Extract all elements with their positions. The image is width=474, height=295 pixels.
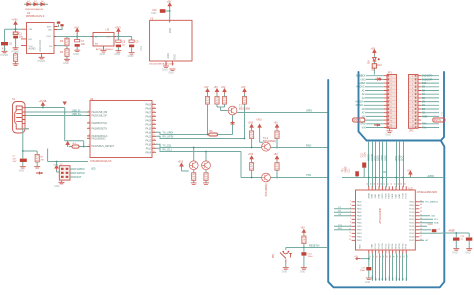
svg-text:11: 11	[390, 113, 392, 115]
wire SWCLK	[70, 172, 76, 174]
svg-text:+3V3: +3V3	[248, 121, 254, 124]
svg-text:EN: EN	[29, 39, 32, 41]
svg-text:18: 18	[383, 256, 385, 258]
svg-text:15: 15	[153, 127, 155, 129]
svg-text:OUT: OUT	[47, 36, 52, 38]
junction 3V3	[117, 36, 119, 38]
junction 5V	[76, 36, 78, 38]
wire USB data D-	[26, 111, 88, 113]
junction AVDD a	[368, 177, 370, 179]
wire C14 gnd	[303, 256, 305, 268]
svg-text:5: 5	[412, 91, 413, 93]
JP1 pin marks	[390, 76, 392, 129]
svg-text:15: 15	[390, 127, 392, 129]
diode D5	[27, 2, 30, 5]
wire +5V rail	[56, 33, 132, 37]
svg-text:PB1: PB1	[273, 253, 275, 258]
svg-text:GND: GND	[162, 69, 168, 72]
svg-text:+5V: +5V	[274, 153, 279, 156]
U3 pin stubs	[91, 37, 116, 49]
svg-text:PD07: PD07	[409, 240, 414, 242]
svg-text:53: 53	[398, 183, 400, 185]
wire RX pullup	[156, 105, 245, 139]
svg-text:PA23: PA23	[146, 139, 152, 142]
svg-text:VIN: VIN	[362, 127, 366, 129]
svg-text:GND: GND	[54, 185, 60, 188]
junction vdd bottom	[368, 258, 370, 260]
T1 gate wire	[217, 107, 228, 111]
svg-text:PA11: PA11	[146, 147, 152, 150]
junction AVDD e	[402, 177, 404, 179]
svg-text:100n: 100n	[360, 270, 366, 272]
svg-text:PF01: PF01	[406, 243, 408, 249]
svg-text:BSS138WQ: BSS138WQ	[265, 183, 268, 196]
svg-text:PA14: PA14	[146, 123, 152, 126]
ground below C1	[13, 48, 19, 50]
svg-text:VDD: VDD	[396, 194, 398, 199]
U2 pin stubs	[21, 27, 57, 58]
bottom left supply cluster	[360, 254, 369, 267]
IC5 right pin numbers	[420, 200, 422, 241]
svg-text:PB05: PB05	[357, 240, 362, 242]
svg-text:20: 20	[390, 256, 392, 258]
X1 pin stubs	[22, 108, 29, 129]
transistor T3	[262, 173, 271, 182]
ground below JP1	[389, 128, 391, 130]
LED ON	[373, 57, 377, 61]
svg-text:+5V: +5V	[354, 256, 358, 258]
svg-text:GND: GND	[385, 133, 391, 136]
svg-text:1: 1	[89, 137, 90, 139]
wire ON led	[373, 55, 375, 75]
bundle rotated labels	[368, 154, 405, 161]
svg-text:LED: LED	[91, 169, 96, 171]
junction AVDD d	[395, 177, 397, 179]
junction 4k7	[83, 146, 85, 148]
transistor T1	[228, 106, 237, 115]
ground below C5	[129, 53, 135, 55]
wire RX_D11	[156, 148, 261, 177]
junction rxd a	[251, 147, 253, 149]
ground below module right	[169, 69, 175, 71]
svg-text:21: 21	[153, 151, 155, 153]
IC5 left pin numbers	[349, 200, 351, 241]
svg-text:+5V: +5V	[300, 227, 305, 230]
svg-text:GND: GND	[452, 252, 458, 255]
svg-text:PC07: PC07	[385, 243, 387, 249]
svg-text:PD02: PD02	[409, 223, 414, 225]
LED DL1	[189, 161, 198, 170]
JP2 pin stubs	[418, 76, 421, 128]
capacitor C15	[453, 238, 459, 241]
svg-text:18: 18	[153, 139, 155, 141]
svg-text:RST/N: RST/N	[434, 119, 441, 122]
svg-text:RST/N: RST/N	[354, 119, 361, 122]
ground below C6	[2, 51, 8, 53]
Y2 bottom pin stubs	[166, 61, 172, 66]
JP2 wires	[421, 76, 439, 128]
svg-text:D10: D10	[422, 83, 427, 85]
net arrow marker	[36, 172, 41, 175]
svg-text:12: 12	[153, 115, 155, 117]
transistor T2	[262, 142, 271, 151]
bottom rotated labels	[372, 275, 408, 280]
svg-text:VDD: VDD	[402, 156, 405, 161]
junction shield	[22, 150, 24, 152]
svg-text:4: 4	[391, 87, 392, 89]
svg-text:25: 25	[407, 256, 409, 258]
svg-text:PA08/BOOTLD: PA08/BOOTLD	[92, 122, 108, 125]
svg-text:C12: C12	[361, 153, 363, 158]
svg-text:+5V: +5V	[214, 86, 219, 89]
wire RESET/N	[286, 247, 328, 249]
svg-text:7: 7	[391, 98, 392, 100]
resistor R5 series	[209, 133, 218, 136]
svg-text:16: 16	[153, 131, 155, 133]
svg-text:BSS138W: BSS138W	[239, 108, 251, 111]
+5V arrow ON led	[373, 50, 377, 56]
T1 body diode	[231, 121, 235, 124]
wire module 5V	[165, 8, 169, 20]
svg-text:A5/SCL: A5/SCL	[356, 104, 365, 107]
svg-text:VREF: VREF	[346, 166, 348, 173]
svg-text:GND: GND	[372, 244, 374, 249]
diode D6	[34, 2, 37, 5]
wire AVDD rail	[342, 168, 444, 178]
svg-text:PD00: PD00	[409, 216, 414, 218]
svg-text:8: 8	[350, 221, 351, 223]
svg-text:GND: GND	[365, 281, 371, 284]
ground below C7	[74, 50, 80, 52]
JP2 pad marks	[415, 75, 417, 129]
wire 3v3 swd rail	[48, 149, 88, 162]
svg-text:PA03: PA03	[357, 204, 361, 207]
capacitor C16	[466, 238, 472, 241]
ground below U2	[39, 57, 45, 59]
svg-text:PA02: PA02	[357, 201, 361, 204]
svg-text:GND: GND	[63, 61, 69, 65]
IC5 bottom pin stubs	[369, 250, 406, 254]
svg-text:AGND: AGND	[29, 48, 36, 51]
wire VIN net	[5, 27, 22, 42]
JP2 pin marks	[412, 76, 414, 129]
svg-text:PA28/RESETN: PA28/RESETN	[92, 127, 108, 130]
svg-text:PA06: PA06	[357, 215, 361, 218]
svg-text:PA09: PA09	[146, 119, 152, 122]
svg-text:OUT: OUT	[107, 36, 112, 38]
shield wire down	[23, 129, 37, 159]
svg-text:GND: GND	[168, 72, 174, 75]
right wire row A7	[419, 239, 424, 241]
svg-text:PA25/USB_DP: PA25/USB_DP	[92, 115, 108, 118]
IC5 bottom pin numbers	[370, 256, 409, 258]
svg-text:GND: GND	[379, 193, 381, 198]
svg-text:2: 2	[350, 200, 351, 202]
ground led b	[203, 183, 209, 185]
ground below J2	[61, 180, 63, 182]
svg-text:PE00: PE00	[389, 243, 391, 249]
IC5 right inner pin names	[409, 202, 414, 243]
svg-text:+3V3: +3V3	[360, 79, 366, 81]
svg-text:PF00: PF00	[402, 243, 404, 249]
svg-text:8: 8	[391, 102, 392, 104]
capacitor C7 output	[76, 36, 78, 39]
svg-text:6: 6	[391, 95, 392, 97]
IC5 left inner pin names	[357, 201, 362, 243]
wire PB1 gnd	[285, 263, 287, 268]
svg-text:+3V3: +3V3	[248, 153, 254, 156]
junction R9	[244, 138, 246, 140]
svg-text:ON: ON	[368, 60, 370, 64]
svg-text:PC00: PC00	[402, 192, 404, 198]
resistor R12	[250, 163, 254, 171]
svg-text:MPM3610GQV-Z: MPM3610GQV-Z	[26, 15, 45, 18]
svg-text:14: 14	[370, 256, 372, 258]
svg-text:PF06: PF06	[385, 193, 387, 199]
junction VIN	[15, 28, 17, 30]
svg-text:56: 56	[388, 183, 390, 185]
resistor R7	[215, 97, 219, 105]
pin14 arrow mark	[374, 124, 379, 127]
junction AVDD b	[382, 177, 384, 179]
svg-text:1: 1	[89, 111, 90, 113]
svg-text:12: 12	[412, 117, 414, 119]
svg-text:PA15: PA15	[146, 127, 152, 130]
svg-text:100n: 100n	[364, 152, 366, 158]
resistor R15 pullup	[302, 236, 306, 244]
wire VBUS	[26, 106, 88, 147]
svg-text:TX_D11: TX_D11	[163, 144, 173, 147]
resistor R4 feedback bottom	[65, 49, 69, 57]
JP1 wires	[364, 76, 384, 128]
svg-text:X32K: X32K	[428, 224, 434, 226]
header JP2	[409, 75, 419, 129]
svg-text:TX1: TX1	[422, 127, 427, 129]
junction AREF	[455, 232, 457, 234]
junction AVDD c	[375, 177, 377, 179]
svg-text:1: 1	[89, 127, 90, 129]
JP1 hatch rows	[388, 78, 396, 126]
ground below C14	[301, 268, 307, 270]
svg-text:RX_D11: RX_D11	[163, 148, 173, 151]
svg-text:OSC: OSC	[140, 45, 143, 50]
svg-text:A4/SDA: A4/SDA	[355, 101, 364, 104]
resistor R2 vcc	[14, 54, 18, 62]
svg-text:17: 17	[380, 256, 382, 258]
wire AREF exit	[419, 233, 469, 237]
wire R4 to gnd	[66, 56, 68, 59]
wire C6 to gnd	[4, 45, 6, 51]
IC5 top inner pin names	[367, 192, 407, 198]
svg-text:20: 20	[153, 147, 155, 149]
svg-text:55: 55	[391, 183, 393, 185]
wire C1 gnd	[22, 162, 24, 166]
svg-text:GND: GND	[399, 193, 401, 198]
svg-text:GND: GND	[151, 12, 157, 15]
svg-text:AREF: AREF	[449, 230, 456, 233]
ground below R2	[13, 64, 19, 66]
svg-text:PA10: PA10	[146, 143, 152, 146]
svg-text:14V: 14V	[13, 161, 17, 163]
svg-text:13: 13	[390, 121, 392, 123]
svg-text:ATMEGA4809: ATMEGA4809	[379, 208, 382, 224]
wire RXD out	[271, 147, 328, 149]
svg-text:3: 3	[412, 84, 413, 86]
resistor R9	[242, 97, 246, 105]
svg-text:SWCLK: SWCLK	[77, 172, 86, 175]
junction reset	[303, 247, 305, 249]
svg-text:RX0: RX0	[422, 124, 427, 126]
svg-text:16: 16	[376, 256, 378, 258]
junction R6	[207, 134, 209, 136]
resistor R6	[205, 97, 209, 105]
svg-text:PC03: PC03	[409, 212, 414, 214]
svg-text:PD03: PD03	[409, 226, 414, 228]
ground below C17	[366, 278, 372, 280]
svg-text:PA06: PA06	[146, 107, 152, 110]
svg-text:60: 60	[420, 204, 422, 206]
JP1 pin stubs	[384, 76, 387, 128]
U4 left pin stubs	[87, 112, 90, 147]
svg-text:TX_UPDI: TX_UPDI	[163, 132, 174, 135]
svg-text:SWDIO: SWDIO	[77, 168, 85, 171]
wire rxd pulls	[252, 130, 277, 148]
capacitor C1 input	[13, 32, 18, 35]
svg-text:PB04: PB04	[357, 237, 362, 239]
svg-text:PA15/VBUS_DETECT: PA15/VBUS_DETECT	[92, 145, 115, 148]
svg-text:PE02: PE02	[396, 243, 398, 249]
ground below C1	[20, 167, 26, 169]
left labels lower	[338, 225, 343, 230]
wire TX_UPDI	[156, 132, 233, 134]
svg-text:+5V: +5V	[204, 86, 209, 89]
svg-text:PA00: PA00	[388, 193, 391, 199]
svg-text:PA31/SWDIO: PA31/SWDIO	[92, 137, 106, 140]
svg-text:GND: GND	[100, 52, 106, 56]
U4 right pin stubs	[152, 104, 156, 152]
resistor R3 feedback top	[65, 38, 69, 46]
ground below module left	[163, 66, 169, 68]
wire SWD reset	[70, 176, 76, 178]
svg-text:11: 11	[153, 111, 155, 113]
svg-text:GND: GND	[385, 155, 388, 161]
resistor RL1	[192, 173, 196, 181]
svg-text:PC06: PC06	[382, 243, 384, 249]
junction VBUS arrow	[42, 107, 44, 109]
svg-text:BSS138WQ: BSS138WQ	[263, 140, 276, 143]
svg-text:PA07: PA07	[146, 111, 152, 114]
JP1 left labels	[355, 76, 366, 130]
ground below U3	[103, 49, 105, 51]
svg-text:10: 10	[412, 110, 414, 112]
feedback wire	[56, 36, 67, 49]
IC5 left pin stubs	[352, 202, 356, 241]
svg-text:13: 13	[349, 239, 351, 241]
svg-text:+VIN: +VIN	[12, 18, 18, 22]
resistor R8	[222, 97, 226, 105]
right wire rows	[419, 216, 433, 227]
svg-text:+3V3: +3V3	[256, 119, 262, 122]
JP2 hatch rows	[409, 78, 417, 126]
svg-text:PB03: PB03	[357, 233, 362, 235]
wire R6 pull	[208, 94, 245, 134]
svg-text:7: 7	[412, 98, 413, 100]
svg-text:RXD: RXD	[306, 144, 311, 147]
top vertical wire bundle	[369, 142, 404, 187]
svg-text:8: 8	[412, 102, 413, 104]
svg-text:D11/COPI: D11/COPI	[422, 79, 433, 81]
svg-text:PC04: PC04	[375, 243, 377, 249]
svg-text:RX_UPDI: RX_UPDI	[163, 136, 174, 139]
svg-text:1: 1	[89, 145, 90, 147]
left wires upper	[334, 209, 352, 216]
svg-text:USB_D+: USB_D+	[72, 113, 82, 116]
svg-text:VDD: VDD	[169, 28, 172, 33]
svg-text:22u: 22u	[81, 43, 86, 46]
IC5 top pin numbers	[367, 183, 406, 185]
svg-text:52: 52	[401, 183, 403, 185]
svg-text:DSC6011ME1A-016.0000: DSC6011ME1A-016.0000	[149, 63, 175, 66]
svg-text:PB04: PB04	[409, 202, 414, 204]
svg-text:62: 62	[367, 183, 369, 185]
svg-text:19: 19	[153, 143, 155, 145]
svg-text:4: 4	[412, 87, 413, 89]
wire led pair feed	[182, 148, 207, 172]
svg-text:58: 58	[420, 211, 422, 213]
svg-text:RESET/N: RESET/N	[309, 245, 320, 248]
svg-text:PD06: PD06	[409, 237, 414, 239]
resistor R1	[35, 154, 39, 162]
svg-text:59: 59	[420, 207, 422, 209]
svg-text:24: 24	[404, 256, 406, 258]
svg-text:13: 13	[153, 119, 155, 121]
svg-text:PA04: PA04	[357, 208, 361, 211]
svg-text:19: 19	[387, 256, 389, 258]
wire caps to gnd	[456, 241, 469, 249]
regulator U2 MPM3610 box	[27, 23, 55, 54]
svg-text:PC05: PC05	[379, 243, 381, 249]
svg-text:UPDI: UPDI	[306, 109, 312, 112]
svg-text:15: 15	[412, 127, 414, 129]
svg-text:+5V: +5V	[167, 0, 172, 4]
svg-text:PA05: PA05	[357, 211, 361, 214]
svg-text:+5V: +5V	[274, 121, 279, 124]
svg-text:54: 54	[394, 183, 396, 185]
svg-text:14: 14	[390, 124, 392, 126]
varistor C1 bar	[20, 159, 27, 162]
Y2 pin stub	[169, 20, 171, 22]
svg-text:11: 11	[412, 113, 414, 115]
resistor R13	[275, 163, 279, 171]
svg-text:9: 9	[412, 106, 413, 108]
junction VBUS corner	[64, 111, 66, 113]
svg-text:7: 7	[350, 218, 351, 220]
svg-text:15: 15	[373, 256, 375, 258]
svg-text:2M: 2M	[40, 159, 43, 161]
svg-text:PA24/USB_DM: PA24/USB_DM	[92, 111, 108, 114]
resistor R10	[250, 131, 254, 139]
svg-text:PC02: PC02	[409, 209, 414, 211]
svg-text:17: 17	[153, 135, 155, 137]
U4 right pin names	[146, 103, 152, 154]
svg-text:6: 6	[412, 95, 413, 97]
left wires lower	[334, 226, 352, 230]
svg-text:57: 57	[384, 183, 386, 185]
svg-text:+5V: +5V	[241, 86, 246, 89]
svg-text:PA08: PA08	[146, 115, 152, 118]
JP1 pad marks	[388, 75, 390, 129]
svg-text:USB_D-: USB_D-	[72, 109, 81, 112]
